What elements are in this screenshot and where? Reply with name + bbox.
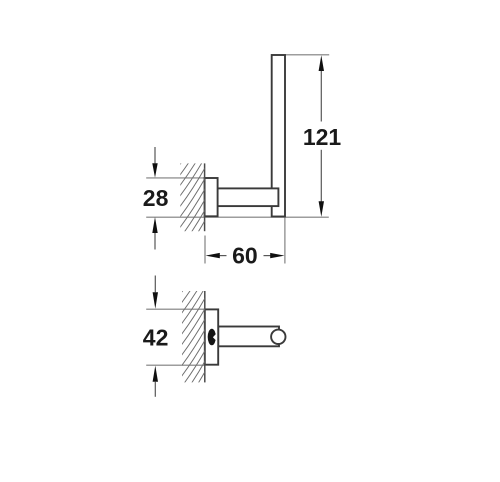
- extension line top of 42 dim: [146, 308, 205, 310]
- wall line (top view): [204, 163, 206, 231]
- svg-text:28: 28: [143, 185, 169, 211]
- extension line 60 right: [284, 218, 286, 264]
- wall line (bottom view): [204, 291, 206, 382]
- dimension line 60 (horizontal): [220, 255, 227, 257]
- wall mounting plate (bottom view): [205, 309, 218, 364]
- arrow 121 top (points up): [319, 55, 324, 71]
- arrow 42 top (points down): [153, 292, 158, 309]
- svg-text:60: 60: [232, 242, 258, 268]
- arrow 28 top (points down): [152, 163, 157, 177]
- rod end cap circle: [271, 330, 285, 344]
- arrow 121 bottom (points down): [319, 201, 324, 217]
- dimension line 42 (vertical, arrows outside): [154, 276, 156, 293]
- long bottom extension line (28 / 121 bottom): [146, 216, 329, 218]
- wall hatching (top view): [179, 125, 205, 260]
- holder vertical bar (top view): [272, 55, 285, 217]
- extension line 60 left: [204, 236, 206, 264]
- extension line top of 121 dim: [285, 54, 329, 56]
- wall mounting plate (top view): [205, 178, 218, 216]
- arrow 60 right (points right): [270, 253, 284, 258]
- screw hole (bottom view): [208, 329, 216, 346]
- arrow 60 left (points left): [206, 253, 220, 258]
- spare roll rod (bottom view): [218, 327, 279, 347]
- extension line top of 28 dim: [146, 177, 204, 179]
- svg-text:121: 121: [303, 124, 342, 150]
- arrow 42 bottom (points up): [153, 366, 158, 382]
- wall hatching (bottom view): [181, 255, 206, 409]
- svg-text:42: 42: [143, 325, 169, 351]
- arrow 28 bottom (points up): [152, 217, 157, 233]
- dimension line 28 (vertical, arrows outside): [154, 147, 156, 163]
- holder horizontal arm (top view): [218, 188, 279, 206]
- extension line bottom of 42 dim: [146, 364, 205, 366]
- dimension line 121 (vertical): [320, 71, 322, 122]
